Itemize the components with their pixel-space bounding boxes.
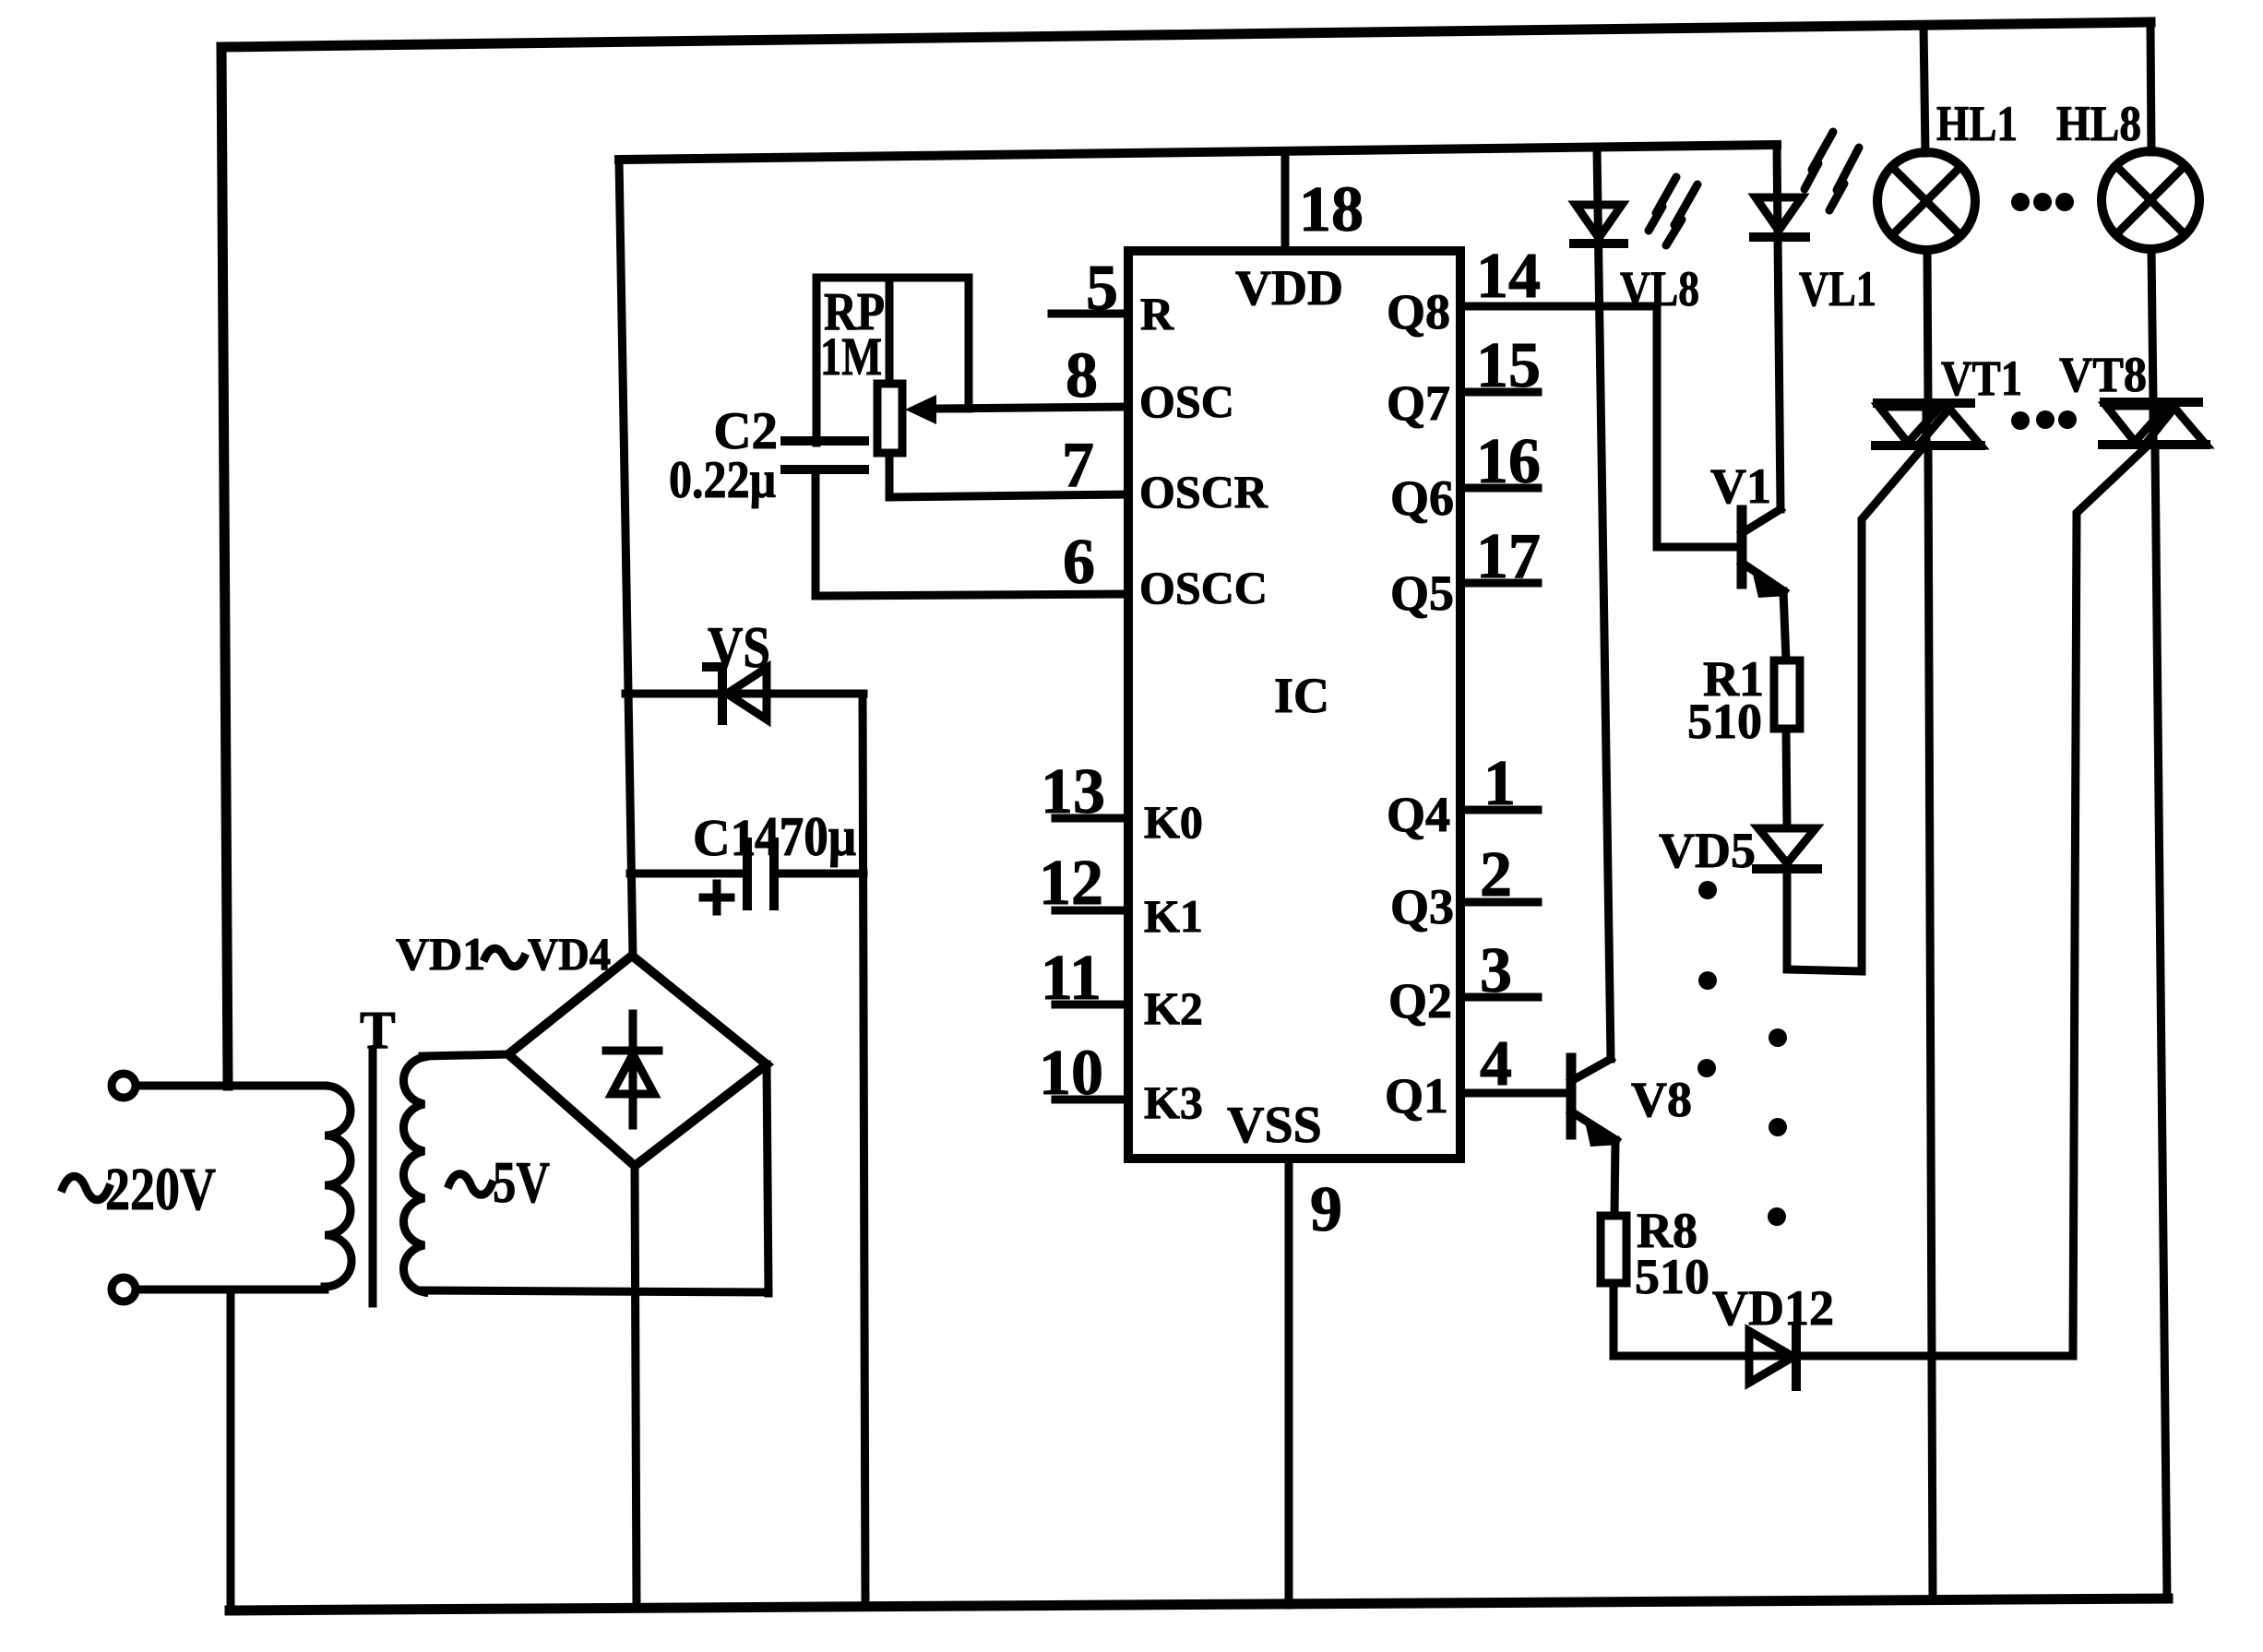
wire VDD pin 18 — [1285, 152, 1364, 251]
LED VL1 — [1754, 132, 1876, 509]
wire VS/C1 ground drop — [863, 694, 865, 1606]
wire R pin 5 stub — [1052, 310, 1128, 318]
resistor R1 510 — [1687, 651, 1800, 749]
wire Q6 pin 16 stub — [1460, 426, 1541, 497]
svg-text:8: 8 — [1066, 340, 1098, 411]
svg-text:Q4: Q4 — [1387, 787, 1450, 842]
svg-text:IC: IC — [1274, 668, 1329, 723]
svg-text:Q6: Q6 — [1390, 470, 1454, 526]
terminal lower mains — [112, 1278, 136, 1301]
wire Q8 pin 14 to V1 base — [1460, 241, 1738, 547]
wire +V vertical (bridge + to second rail) — [619, 160, 633, 957]
svg-text:11: 11 — [1041, 943, 1102, 1014]
wire VT1 to bottom rail — [1928, 446, 1933, 1599]
svg-text:Q5: Q5 — [1390, 565, 1454, 621]
capacitor C1 — [630, 806, 864, 911]
triac VT1 — [1876, 351, 2022, 446]
svg-text:470μ: 470μ — [755, 806, 856, 867]
svg-text:5V: 5V — [493, 1149, 550, 1215]
wire R1 to VD5 — [1786, 729, 1787, 828]
svg-text:Q1: Q1 — [1385, 1068, 1448, 1123]
svg-text:Q7: Q7 — [1387, 375, 1450, 431]
svg-text:VD5: VD5 — [1659, 823, 1756, 878]
resistor R8 510 — [1601, 1203, 1709, 1304]
wire RP top branch — [816, 274, 969, 282]
svg-text:VL1: VL1 — [1799, 261, 1876, 316]
svg-text:Q8: Q8 — [1387, 284, 1450, 339]
svg-text:V1: V1 — [1710, 458, 1771, 514]
svg-text:16: 16 — [1476, 426, 1541, 497]
wire left mains border — [221, 47, 228, 1086]
wire upper terminal to transformer — [136, 1082, 325, 1090]
svg-text:5: 5 — [1086, 253, 1118, 324]
svg-text:7: 7 — [1062, 430, 1094, 501]
wire Q4 pin 1 stub — [1460, 748, 1538, 819]
svg-text:3: 3 — [1480, 935, 1512, 1006]
wire K0 pin 13 stub — [1041, 756, 1128, 827]
wire C2 to OSCC pin 6 — [816, 469, 1128, 596]
wire Q1 pin 4 to V8 base — [1460, 1028, 1567, 1099]
wire Q2 pin 3 stub — [1460, 935, 1538, 1006]
svg-text:OSC: OSC — [1139, 375, 1234, 427]
svg-text:6: 6 — [1063, 527, 1095, 598]
wire K3 pin 10 stub — [1039, 1038, 1128, 1109]
svg-text:VD12: VD12 — [1712, 1280, 1834, 1336]
potentiometer RP 1M — [820, 278, 969, 497]
svg-text:T: T — [360, 1000, 396, 1060]
svg-text:1: 1 — [1483, 748, 1516, 819]
svg-text:VS: VS — [708, 614, 770, 680]
wire Q3 pin 2 stub — [1460, 839, 1538, 910]
wire V8 emitter to R8 — [1614, 1140, 1615, 1216]
node ellipsis between lamps — [2011, 193, 2074, 211]
svg-text:VT8: VT8 — [2059, 347, 2147, 402]
bridge rectifier VD1~VD4 — [396, 928, 767, 1166]
svg-text:2: 2 — [1480, 839, 1512, 910]
wire VT8 gate — [2073, 448, 2145, 1356]
LED VL8 — [1574, 149, 1699, 1059]
wire V1 emitter to R1 — [1783, 591, 1786, 660]
wire OSC pin 8 — [935, 407, 1128, 409]
svg-text:VL8: VL8 — [1620, 261, 1699, 316]
node repetition dots right column — [1768, 1028, 1787, 1226]
wire R8 down to VD12 line — [1610, 1283, 1618, 1356]
svg-text:VT1: VT1 — [1941, 351, 2022, 406]
svg-text:VD1: VD1 — [396, 928, 485, 980]
svg-text:17: 17 — [1476, 521, 1541, 592]
triac VT8 — [2059, 347, 2206, 445]
wire Q7 pin 15 stub — [1460, 330, 1541, 401]
svg-text:C1: C1 — [693, 810, 756, 867]
wire VD5 to VT1 gate — [1787, 451, 1920, 971]
svg-text:13: 13 — [1041, 756, 1105, 827]
wire bridge AC right leg — [767, 1064, 768, 1293]
svg-text:9: 9 — [1310, 1174, 1342, 1245]
svg-text:0.22μ: 0.22μ — [669, 451, 776, 509]
svg-text:510: 510 — [1687, 694, 1762, 749]
svg-text:HL1: HL1 — [1936, 96, 2018, 151]
node repetition dots left column — [1697, 881, 1717, 1077]
svg-text:HL8: HL8 — [2056, 96, 2141, 151]
svg-text:K1: K1 — [1144, 890, 1203, 942]
diode VD12 — [1614, 1280, 2073, 1386]
svg-text:OSCR: OSCR — [1139, 466, 1268, 517]
transformer T — [325, 1000, 768, 1303]
svg-text:K0: K0 — [1144, 796, 1203, 848]
wire RP to OSCR pin 7 — [889, 494, 1128, 497]
wire Q5 pin 17 stub — [1460, 521, 1541, 592]
node ellipsis between triacs — [2011, 410, 2077, 430]
zener diode VS — [625, 614, 864, 720]
svg-text:15: 15 — [1476, 330, 1541, 401]
wire bridge minus to bottom rail — [635, 1166, 637, 1607]
svg-text:R: R — [1140, 288, 1174, 339]
wire VSS pin 9 — [1289, 1159, 1342, 1605]
svg-text:1M: 1M — [820, 327, 882, 386]
svg-text:V8: V8 — [1631, 1072, 1692, 1127]
svg-text:4: 4 — [1480, 1028, 1512, 1099]
capacitor C2 — [669, 402, 864, 509]
wire K1 pin 12 stub — [1039, 848, 1128, 919]
svg-text:VSS: VSS — [1227, 1097, 1322, 1154]
lamp HL8 — [2056, 22, 2199, 402]
svg-text:220V: 220V — [105, 1156, 216, 1223]
transistor V1 — [1710, 458, 1788, 598]
wire lower terminal to transformer — [136, 1286, 325, 1294]
wire mains drop to bottom rail — [227, 1290, 235, 1610]
svg-text:14: 14 — [1476, 241, 1541, 312]
IC U1 — [1128, 251, 1460, 1159]
svg-text:510: 510 — [1635, 1249, 1709, 1304]
svg-text:VD4: VD4 — [528, 928, 611, 980]
svg-text:Q2: Q2 — [1388, 973, 1452, 1028]
svg-text:K3: K3 — [1144, 1076, 1203, 1128]
svg-text:18: 18 — [1299, 174, 1364, 245]
svg-text:VDD: VDD — [1235, 260, 1343, 315]
wire second supply rail — [619, 145, 1777, 160]
svg-text:10: 10 — [1039, 1038, 1103, 1109]
node ~5V — [449, 1149, 550, 1215]
svg-text:Q3: Q3 — [1390, 879, 1454, 934]
svg-text:K2: K2 — [1144, 982, 1203, 1034]
diode VD5 — [1659, 823, 1817, 878]
svg-text:12: 12 — [1039, 848, 1103, 919]
terminal upper mains — [112, 1074, 136, 1098]
node ~220V — [63, 1156, 216, 1223]
wire bottom rail — [230, 1599, 2168, 1610]
transistor V8 — [1571, 1058, 1692, 1147]
wire top supply rail — [221, 22, 2150, 47]
lamp HL1 — [1877, 25, 2018, 403]
wire RP left branch to C2 — [813, 278, 821, 443]
svg-text:OSCC: OSCC — [1139, 562, 1268, 613]
wire K2 pin 11 stub — [1041, 943, 1128, 1014]
wire VT8 to bottom rail corner — [2155, 448, 2167, 1599]
